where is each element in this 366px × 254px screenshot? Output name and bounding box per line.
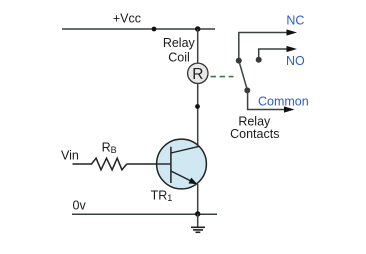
common arrowhead xyxy=(284,106,295,112)
junction dot at ground xyxy=(195,211,200,216)
svg-text:NC: NC xyxy=(286,14,304,28)
junction dot on collector wire xyxy=(195,104,200,109)
junction dot on Vcc rail xyxy=(152,27,157,32)
svg-text:NO: NO xyxy=(286,54,305,68)
+Vcc rail wire xyxy=(62,28,215,30)
relay coil R xyxy=(188,63,208,83)
switch lever xyxy=(239,62,247,89)
wire Vcc rail to relay coil xyxy=(197,29,199,64)
dashed link coil to contacts xyxy=(211,76,234,78)
svg-text:+Vcc: +Vcc xyxy=(113,12,141,26)
resistor RB xyxy=(92,158,127,170)
svg-text:0v: 0v xyxy=(73,198,87,212)
svg-text:TR1: TR1 xyxy=(151,189,173,204)
common pivot dot xyxy=(244,87,250,93)
svg-text:Vin: Vin xyxy=(61,148,79,162)
wire Vin to resistor xyxy=(73,163,93,165)
wire relay coil to collector xyxy=(197,84,199,147)
NC contact wire xyxy=(239,33,288,61)
NO contact dot xyxy=(256,57,262,63)
junction dot at relay branch xyxy=(195,26,200,31)
svg-text:Contacts: Contacts xyxy=(230,127,279,141)
svg-text:R: R xyxy=(192,66,203,83)
NO contact wire xyxy=(259,49,288,60)
transistor TR1 xyxy=(157,139,207,189)
NC contact dot xyxy=(236,58,242,64)
0v rail wire xyxy=(72,213,217,215)
svg-text:Coil: Coil xyxy=(168,51,190,65)
common wire xyxy=(248,90,285,109)
svg-text:Common: Common xyxy=(258,95,309,109)
NO arrowhead xyxy=(287,46,298,52)
ground xyxy=(191,214,205,232)
svg-text:Relay: Relay xyxy=(163,36,196,50)
wire resistor to base xyxy=(127,163,157,165)
svg-text:RB: RB xyxy=(102,141,117,156)
NC arrowhead xyxy=(287,29,298,35)
wire emitter to 0v rail xyxy=(197,184,199,214)
